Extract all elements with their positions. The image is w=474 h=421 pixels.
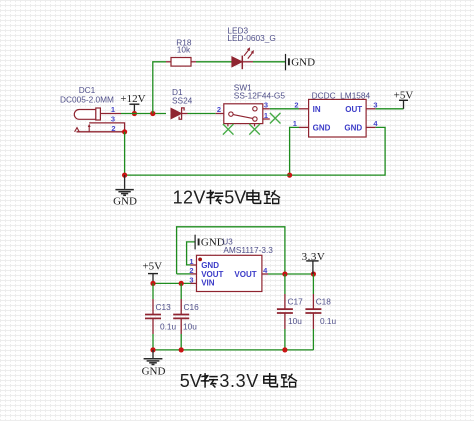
wire SW1 to DCDC IN <box>270 108 299 110</box>
svg-text:10u: 10u <box>183 322 197 332</box>
power +5V bottom <box>142 260 162 283</box>
connector DC1 labels <box>60 85 114 105</box>
svg-text:0.1u: 0.1u <box>160 322 177 332</box>
wire bottom GND rail <box>153 349 313 351</box>
svg-text:3.3V: 3.3V <box>219 371 258 391</box>
svg-text:GND: GND <box>291 57 315 69</box>
capacitor C17 <box>277 274 303 350</box>
svg-text:VIN: VIN <box>201 278 215 287</box>
svg-text:5V: 5V <box>224 188 246 208</box>
svg-text:5V: 5V <box>180 371 202 391</box>
power +12V <box>120 93 145 113</box>
svg-text:GND: GND <box>344 124 362 133</box>
no-connect X SW1 bottom right <box>249 124 260 135</box>
diode D1 <box>171 87 193 119</box>
wire D1 to SW1 <box>188 113 216 115</box>
ground GND top circuit <box>113 175 137 208</box>
svg-text:2: 2 <box>294 100 298 109</box>
svg-text:3: 3 <box>264 101 268 110</box>
no-connect X SW1 bottom left <box>223 124 234 135</box>
resistor R18 <box>166 37 196 66</box>
wire loop to U3 pin2 <box>177 273 191 275</box>
svg-text:SS24: SS24 <box>172 95 193 105</box>
switch SW1 <box>216 83 286 127</box>
ground GND bar U3 <box>187 235 225 265</box>
connector DC1 pin 2 sleeve <box>75 124 125 134</box>
ground GND bottom circuit <box>142 350 166 378</box>
power 3.3V <box>302 251 326 274</box>
junction GND rail left <box>122 173 127 178</box>
svg-text:2: 2 <box>189 266 193 275</box>
svg-text:GND: GND <box>313 124 331 133</box>
svg-text:2: 2 <box>217 105 221 114</box>
svg-text:1: 1 <box>264 111 268 120</box>
junction +12V <box>132 111 137 116</box>
connector DC1 body <box>74 108 100 120</box>
regulator U3 AMS1117-3.3 <box>189 237 273 292</box>
LED LED3 <box>227 25 275 69</box>
regulator DCDC LM1584 <box>293 90 379 137</box>
capacitor C16 <box>173 283 199 350</box>
wire DCDC pin1 to GND rail <box>290 127 299 175</box>
svg-text:GND: GND <box>142 366 166 378</box>
junction VOUT C17 <box>282 271 287 276</box>
wire DCDC pin3 to +5V <box>376 108 404 110</box>
svg-text:OUT: OUT <box>345 105 362 114</box>
svg-text:DC1: DC1 <box>79 85 96 95</box>
svg-text:+5V: +5V <box>394 89 414 101</box>
svg-text:+5V: +5V <box>142 260 162 272</box>
junction bottom rail C13 <box>150 347 155 352</box>
connector DC1 pin 1 <box>100 105 121 114</box>
junction R18 branch <box>150 111 155 116</box>
wire pin1 to D1 <box>121 113 166 115</box>
svg-text:3: 3 <box>373 100 377 109</box>
title 5V to 3.3V <box>180 371 297 391</box>
svg-text:VOUT: VOUT <box>234 270 256 279</box>
svg-text:LED-0603_G: LED-0603_G <box>227 33 275 43</box>
svg-text:C17: C17 <box>288 296 304 306</box>
svg-text:AMS1117-3.3: AMS1117-3.3 <box>223 245 273 255</box>
svg-text:GND: GND <box>113 196 137 208</box>
svg-text:C16: C16 <box>184 302 200 312</box>
junction bottom rail C16 <box>179 347 184 352</box>
svg-text:10u: 10u <box>288 316 302 326</box>
wire VOUT top loop <box>177 227 285 274</box>
wire branch up to R18 <box>153 62 166 114</box>
wire GND rail <box>125 174 290 176</box>
svg-text:IN: IN <box>313 105 321 114</box>
svg-text:2: 2 <box>111 124 115 133</box>
wire LED3 to GND bar <box>253 61 285 63</box>
connector DC1 pin 3 <box>89 115 124 132</box>
junction DCDC gnd <box>287 173 292 178</box>
junction VIN left <box>150 281 155 286</box>
svg-text:3: 3 <box>111 115 115 124</box>
svg-text:12V: 12V <box>173 188 206 208</box>
power +5V top <box>394 89 414 109</box>
svg-text:C13: C13 <box>156 302 172 312</box>
svg-text:SS-12F44-G5: SS-12F44-G5 <box>234 90 286 100</box>
svg-text:+12V: +12V <box>120 93 145 105</box>
wire node to GND rail <box>124 132 126 175</box>
junction bottom rail C17 <box>282 347 287 352</box>
svg-text:10k: 10k <box>177 45 191 55</box>
capacitor C13 <box>145 283 177 350</box>
no-connect X SW1 pin1 <box>270 113 281 124</box>
svg-text:0.1u: 0.1u <box>320 316 337 326</box>
svg-text:GND: GND <box>201 261 219 270</box>
junction VOUT 3.3V <box>311 271 316 276</box>
wire DCDC pin4 loop <box>290 127 386 175</box>
junction DC1 pin2/pin3 node <box>122 129 127 134</box>
ground GND bar top right <box>286 54 316 70</box>
capacitor C18 <box>305 274 336 350</box>
svg-text:1: 1 <box>293 119 297 128</box>
wire R18 to LED3 <box>196 61 232 63</box>
svg-text:1: 1 <box>111 105 115 114</box>
wire U3 pin4 to 3.3V <box>268 273 313 275</box>
title 12V to 5V <box>173 188 280 208</box>
junction VIN C16 <box>179 281 184 286</box>
svg-text:DC005-2.0MM: DC005-2.0MM <box>60 95 114 105</box>
svg-text:1: 1 <box>189 257 193 266</box>
wire VIN rail <box>153 282 191 284</box>
svg-text:C18: C18 <box>316 296 332 306</box>
